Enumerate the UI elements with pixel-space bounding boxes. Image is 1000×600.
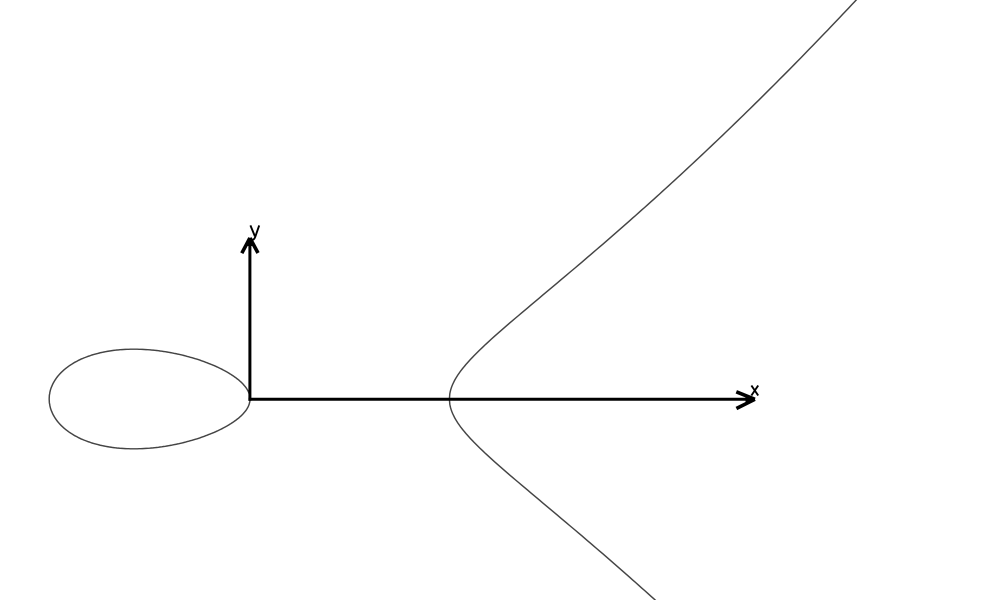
label x (751, 386, 758, 396)
x-axis (248, 398, 748, 401)
y-axis arrowhead (242, 238, 250, 253)
curve branch (unbounded component of elliptic curve) (449, 0, 869, 600)
y-axis (248, 241, 251, 401)
curve oval (closed component of elliptic curve) (49, 349, 250, 449)
label y (250, 225, 259, 239)
x-axis arrowhead (736, 392, 755, 400)
